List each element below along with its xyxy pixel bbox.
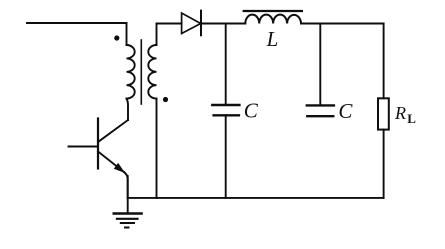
wire: diode cathode to inductor bbox=[201, 23, 245, 25]
svg-text:L: L bbox=[266, 27, 279, 51]
wire: inductor to top-right corner bbox=[301, 23, 384, 25]
wire: top wire down to resistor bbox=[383, 24, 385, 99]
svg-text:C: C bbox=[244, 98, 259, 122]
capacitor C (first) bbox=[212, 105, 239, 115]
ground bbox=[114, 176, 142, 228]
resistor RL bbox=[378, 98, 389, 129]
svg-text:L: L bbox=[407, 111, 416, 126]
wire: cap 1 bottom branch bbox=[225, 115, 227, 198]
wire: resistor bottom to rail bbox=[383, 130, 385, 198]
transformer secondary winding bbox=[148, 45, 156, 99]
label RL bbox=[394, 103, 416, 126]
inductor L bbox=[244, 11, 302, 24]
polarity dot (primary, top) bbox=[114, 35, 119, 40]
transistor Q1 (NPN) bbox=[69, 119, 129, 198]
wire: secondary to diode anode bbox=[157, 23, 182, 25]
transformer primary winding bbox=[127, 45, 135, 99]
capacitor C (second) bbox=[307, 105, 334, 116]
wire: secondary top lead bbox=[156, 24, 158, 46]
polarity dot (secondary, bottom) bbox=[163, 97, 168, 102]
wire: cap 2 top branch bbox=[319, 24, 321, 106]
diode D1 bbox=[182, 11, 201, 36]
wire: primary bottom lead / collector riser bbox=[127, 99, 129, 120]
wire: cap 1 top branch bbox=[225, 24, 227, 106]
transformer core bbox=[140, 40, 142, 104]
wire: primary top lead bbox=[126, 23, 128, 45]
bottom rail bbox=[128, 197, 384, 199]
svg-text:R: R bbox=[394, 103, 406, 123]
wire: secondary bottom lead bbox=[156, 99, 158, 198]
wire: input feed top-left bbox=[27, 22, 127, 24]
svg-text:C: C bbox=[338, 99, 353, 123]
emitter arrowhead bbox=[114, 163, 125, 173]
